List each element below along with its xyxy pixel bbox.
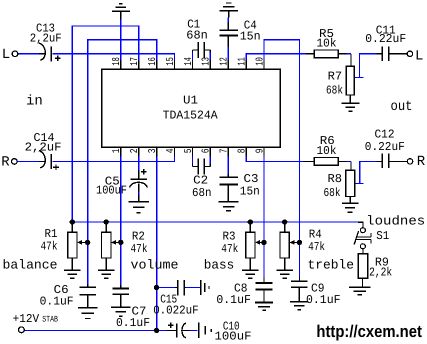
R1 wiper arrow bbox=[77, 240, 88, 245]
pin 6 bbox=[209, 147, 211, 157]
node C10 junction on +12V rail bbox=[154, 328, 159, 333]
wire: R8 tap to C12 bbox=[355, 182, 364, 184]
svg-text:68k: 68k bbox=[324, 186, 341, 200]
capacitor C1 body bbox=[192, 42, 210, 58]
resistor R8 bbox=[346, 170, 355, 196]
ground (below C7) bbox=[111, 294, 131, 316]
svg-text:68n: 68n bbox=[192, 186, 212, 200]
capacitor C15 body bbox=[175, 280, 186, 296]
wire: pin 3 down to C15 node and +12V rail bbox=[156, 157, 158, 331]
svg-text:U1: U1 bbox=[183, 93, 198, 107]
svg-text:15: 15 bbox=[165, 57, 177, 66]
pin 3 bbox=[156, 147, 158, 157]
wire: pin 17 up-left-down to R1 top (net V-ref left) bbox=[72, 26, 138, 222]
wire: C15 right lead blue bbox=[186, 287, 200, 289]
pin 12 bbox=[227, 60, 229, 70]
wire: blue bits at C2 pins bbox=[191, 156, 193, 163]
capacitor C8 body bbox=[256, 277, 273, 289]
svg-text:out: out bbox=[391, 99, 413, 115]
node C15 junction on pin3 wire bbox=[154, 285, 159, 290]
resistor R5 lead left bbox=[306, 53, 315, 55]
potentiometer R4 top lead bbox=[284, 222, 286, 232]
ground (below R2) bbox=[98, 266, 115, 278]
node rail junction at R2 bbox=[104, 219, 109, 224]
pin 4 bbox=[174, 147, 176, 157]
pin 17 bbox=[138, 60, 140, 70]
pin 9 bbox=[263, 147, 265, 157]
node rail junction at R3 bbox=[248, 219, 253, 224]
svg-text:balance: balance bbox=[3, 257, 58, 272]
capacitor C4 body bbox=[220, 22, 238, 47]
svg-text:68k: 68k bbox=[326, 84, 343, 98]
capacitor C6 body bbox=[79, 285, 96, 295]
svg-text:0.022uF: 0.022uF bbox=[153, 303, 199, 317]
svg-text:9: 9 bbox=[254, 148, 266, 153]
svg-text:47k: 47k bbox=[41, 239, 58, 253]
R3 wiper arrow bbox=[255, 240, 264, 245]
op-amp U1 TDA1524A IC body bbox=[102, 69, 280, 147]
svg-text:1: 1 bbox=[111, 148, 123, 153]
svg-text:15n: 15n bbox=[240, 184, 260, 198]
R3 bottom lead bbox=[249, 258, 251, 266]
ground (below C8) bbox=[255, 290, 273, 311]
R2 bottom lead bbox=[105, 258, 107, 266]
capacitor C13 body (polarized) bbox=[39, 43, 52, 61]
node R1 wiper junction bbox=[85, 240, 90, 245]
svg-text:0.1uF: 0.1uF bbox=[116, 316, 150, 330]
svg-text:16: 16 bbox=[147, 57, 159, 66]
capacitor C7 body bbox=[112, 285, 129, 294]
node L output terminal bbox=[407, 51, 412, 56]
svg-text:R8: R8 bbox=[328, 172, 343, 186]
ground (below C5) bbox=[129, 194, 149, 212]
ground (below R1) bbox=[64, 266, 81, 278]
svg-text:2,2uF: 2,2uF bbox=[30, 31, 62, 45]
C5 plus sign bbox=[141, 171, 147, 173]
wire: +12V rail bbox=[24, 329, 167, 331]
C13 plus sign bbox=[55, 57, 61, 59]
node rail junction at R4 bbox=[282, 219, 287, 224]
svg-text:bass: bass bbox=[204, 257, 235, 272]
svg-text:7: 7 bbox=[219, 148, 231, 153]
wire: C13 to pin 15 corner bbox=[53, 54, 175, 60]
wire: pin 8 down-right to R6 bbox=[246, 157, 306, 162]
C14 plus sign bbox=[53, 166, 59, 168]
resistor R6 lead left bbox=[304, 160, 315, 162]
wire: C10 right lead blue bbox=[190, 329, 198, 331]
svg-text:0.1uF: 0.1uF bbox=[40, 295, 74, 309]
wire: ground to pin 18 bbox=[120, 20, 122, 60]
ground (below R8) bbox=[342, 197, 359, 213]
wire: reference rail (pots tops) bbox=[72, 221, 358, 223]
ground (below C6) bbox=[78, 295, 97, 319]
pin 15 bbox=[174, 60, 176, 70]
resistor R5 bbox=[314, 50, 338, 58]
svg-text:R: R bbox=[417, 154, 426, 170]
resistor R6 bbox=[314, 158, 338, 166]
svg-text:3: 3 bbox=[147, 148, 159, 153]
svg-text:14: 14 bbox=[183, 57, 195, 66]
wire: R6 right to R8 (short blue) bbox=[347, 160, 351, 162]
capacitor C10 body (polarized) bbox=[167, 323, 190, 338]
ground (below R3) bbox=[242, 266, 259, 278]
node R input terminal bbox=[12, 159, 18, 165]
wire: pin 9 down to R3 wiper and C8 bbox=[263, 157, 265, 278]
svg-text:L: L bbox=[415, 48, 423, 64]
potentiometer R1 bbox=[68, 232, 77, 258]
svg-text:47k: 47k bbox=[221, 242, 238, 256]
svg-text:17: 17 bbox=[129, 57, 141, 66]
wire: C4 lead blue bit bbox=[227, 47, 229, 60]
svg-text:4: 4 bbox=[165, 148, 177, 153]
node R2 wiper junction bbox=[118, 240, 123, 245]
wire: blue bit in C4 stem bbox=[227, 18, 229, 23]
ground (below R7) bbox=[341, 95, 359, 111]
wire: pin 16 up-left-down to R1 wiper and C6 bbox=[88, 40, 157, 285]
potentiometer R4 bbox=[280, 232, 289, 258]
svg-text:loudnes: loudnes bbox=[366, 214, 425, 229]
capacitor C14 body (polarized) bbox=[39, 151, 52, 169]
ground (below C3) bbox=[219, 184, 239, 210]
R1 bottom lead bbox=[71, 258, 73, 266]
wire: C11 to L out (blue bit) bbox=[390, 53, 397, 55]
R4 wiper arrow bbox=[289, 240, 299, 245]
svg-text:2,2uF: 2,2uF bbox=[25, 140, 62, 154]
ground (top of C4) bbox=[220, 3, 238, 18]
R4 bottom lead bbox=[284, 258, 286, 266]
ground (right of C15) bbox=[201, 280, 209, 295]
pin 11 bbox=[245, 60, 247, 70]
ground (right of C10) bbox=[199, 323, 211, 338]
wire: pin 7 stub to C3 bbox=[227, 156, 229, 174]
svg-text:0.22uF: 0.22uF bbox=[365, 140, 405, 154]
svg-text:0.1uF: 0.1uF bbox=[216, 293, 251, 307]
svg-text:10k: 10k bbox=[317, 36, 337, 50]
capacitor C2 body bbox=[192, 158, 210, 174]
svg-text:volume: volume bbox=[131, 257, 179, 272]
wire: R input C14 to pin 4 bbox=[17, 160, 39, 162]
svg-text:13: 13 bbox=[201, 57, 213, 66]
capacitor C5 body (polarized electrolytic) bbox=[130, 170, 148, 191]
node R output terminal bbox=[407, 159, 412, 164]
wire R6 to R8 corner bbox=[338, 161, 351, 170]
capacitor C9 body bbox=[291, 278, 308, 288]
node R3 wiper junction bbox=[261, 240, 266, 245]
potentiometer R2 top lead bbox=[105, 222, 107, 232]
svg-text:12: 12 bbox=[219, 57, 231, 66]
svg-text:5: 5 bbox=[183, 148, 195, 153]
svg-text:47k: 47k bbox=[131, 242, 148, 256]
svg-text:2: 2 bbox=[129, 148, 141, 153]
wire: pin 11 up-right to R5 bbox=[246, 54, 306, 60]
pin 18 bbox=[120, 60, 122, 70]
svg-text:100uF: 100uF bbox=[96, 183, 127, 197]
svg-text:0.22uF: 0.22uF bbox=[365, 32, 406, 46]
svg-text:8: 8 bbox=[237, 148, 249, 153]
ground (top, pin 18 net) bbox=[112, 4, 130, 20]
svg-text:18: 18 bbox=[111, 57, 123, 66]
resistor R7 bbox=[346, 66, 354, 95]
potentiometer R1 top lead bbox=[71, 222, 73, 232]
wire: blue bits at C1 pins bbox=[191, 52, 193, 60]
ground (below C9) bbox=[290, 287, 309, 309]
svg-text:treble: treble bbox=[308, 257, 355, 272]
potentiometer R3 bbox=[246, 232, 255, 258]
svg-text:47k: 47k bbox=[308, 240, 325, 254]
svg-text:in: in bbox=[26, 94, 43, 110]
svg-text:6: 6 bbox=[201, 148, 213, 153]
svg-text:10: 10 bbox=[254, 57, 266, 66]
pin 13 bbox=[209, 60, 211, 70]
pin 16 bbox=[156, 60, 158, 70]
S1 to R9 lead bbox=[362, 249, 364, 254]
svg-text:L: L bbox=[2, 47, 10, 63]
potentiometer R3 top lead bbox=[249, 222, 251, 232]
wire: L input to C13 bbox=[18, 53, 40, 55]
svg-text:2,2k: 2,2k bbox=[369, 266, 392, 280]
pin 1 bbox=[120, 147, 122, 157]
wire: pin 1 down to R2 wiper and C7 bbox=[120, 157, 122, 286]
pin 10 bbox=[263, 60, 265, 70]
wire: R7 tap to C11 bbox=[355, 76, 364, 78]
wire: blue bit in C5 stem bbox=[138, 192, 140, 195]
svg-text:TDA1524A: TDA1524A bbox=[163, 108, 219, 122]
svg-text:0.1uF: 0.1uF bbox=[306, 293, 341, 307]
pin 2 bbox=[138, 147, 140, 157]
svg-text:S1: S1 bbox=[376, 229, 389, 243]
capacitor C11 body bbox=[376, 46, 407, 61]
resistor R9 bbox=[358, 254, 367, 279]
capacitor C12 body bbox=[376, 154, 407, 169]
wire: R5 right to R7 (short blue) bbox=[347, 53, 351, 55]
pin 8 bbox=[245, 147, 247, 157]
svg-text:R7: R7 bbox=[328, 69, 343, 83]
svg-text:http://cxem.net: http://cxem.net bbox=[316, 322, 422, 341]
node R4 wiper junction bbox=[297, 240, 302, 245]
svg-text:11: 11 bbox=[237, 57, 249, 66]
svg-text:100uF: 100uF bbox=[215, 329, 252, 343]
svg-text:68n: 68n bbox=[186, 29, 208, 43]
capacitor C3 body bbox=[219, 174, 238, 184]
pin 7 bbox=[227, 147, 229, 157]
svg-text:15n: 15n bbox=[240, 30, 261, 44]
svg-text:+12V: +12V bbox=[13, 312, 40, 326]
wire rail to S1 (black) bbox=[358, 222, 363, 227]
C10 plus sign bbox=[168, 324, 174, 326]
svg-text:STAB: STAB bbox=[42, 315, 58, 325]
svg-text:10k: 10k bbox=[317, 144, 337, 158]
wire R5 to R7 corner bbox=[338, 54, 351, 67]
svg-text:R: R bbox=[1, 154, 10, 170]
pin 14 bbox=[191, 60, 193, 70]
ground (below R9) bbox=[349, 278, 371, 295]
ground (below R4) bbox=[276, 266, 293, 278]
R2 wiper arrow bbox=[111, 240, 121, 245]
wire: C15 node to C15 bbox=[157, 287, 176, 289]
node rail junction at R1 bbox=[70, 219, 75, 224]
node +12V input terminal bbox=[19, 327, 25, 333]
pin 5 bbox=[191, 147, 193, 157]
node L input terminal bbox=[12, 51, 18, 57]
wire: pin 10 up-right-down to R4 wiper and C9 bbox=[264, 40, 299, 278]
potentiometer R2 bbox=[102, 232, 111, 258]
wire: pin 2 down to C5 bbox=[138, 157, 140, 171]
switch S1 bbox=[354, 228, 371, 249]
